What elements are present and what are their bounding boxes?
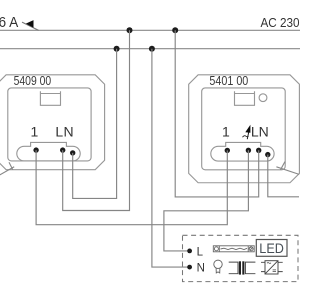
U1 claw [0,162,14,176]
node junction N2 [149,46,155,52]
node lamp L [187,249,192,254]
node supply arrow [26,20,34,28]
device U2 insert 5401 00 [189,75,300,183]
svg-text:1: 1 [222,124,230,140]
U1 terminal L [60,147,65,152]
U2 terminal output [246,148,251,153]
svg-text:6 A: 6 A [0,15,19,31]
wire U1 L to L bus [63,30,130,210]
U2 indicator circle [259,94,267,102]
U2 claw [276,162,299,175]
U1 inner frame [8,88,91,161]
svg-text:L: L [55,124,63,140]
incandescent bulb symbol [214,260,222,273]
node lamp N [187,265,192,270]
U1 terminal 1 [33,147,38,152]
transformer symbol [229,261,256,274]
U2 terminal L [256,148,261,153]
device U1 insert 5409 00 [0,75,105,176]
U1 terminal N [70,150,75,155]
svg-text:N: N [64,124,74,140]
U2 outer frame [189,75,300,183]
wire U2 L to L bus [175,30,259,197]
LED box [256,240,287,257]
wire N bus [0,48,300,50]
U1 clip [40,91,60,105]
U1 terminal block [17,142,80,161]
svg-text:5409 00: 5409 00 [14,73,52,88]
wire supply arrow tail [22,22,39,30]
wire U1 1 to U2 1 [36,150,227,225]
wire U1 N to N bus [73,49,117,199]
fluorescent tube symbol [213,246,254,252]
svg-text:N: N [197,263,205,275]
node junction L2 [172,27,178,33]
U2 inner frame [202,88,286,170]
svg-text:1: 1 [31,124,39,140]
U1 outer frame [0,75,105,170]
svg-text:L: L [197,247,204,259]
wire N bus to lamp N [152,49,190,267]
svg-text:LED: LED [259,241,284,256]
U2 terminal N [265,152,270,157]
label U2 output symbol [245,125,250,140]
U2 clip [235,91,255,105]
svg-text:N: N [259,124,269,140]
U2 terminal block [211,142,274,161]
wire U2 N off page [268,155,299,197]
load box dashed frame [183,235,299,281]
electronic transformer symbol [261,261,283,274]
svg-text:5401 00: 5401 00 [209,73,248,88]
svg-text:AC 230: AC 230 [261,16,300,30]
U2 terminal 1 [225,148,230,153]
wire U2 output to lamp L [164,150,249,251]
node junction N1 [114,46,120,52]
wire L bus [0,29,300,31]
node junction L1 [127,27,133,33]
